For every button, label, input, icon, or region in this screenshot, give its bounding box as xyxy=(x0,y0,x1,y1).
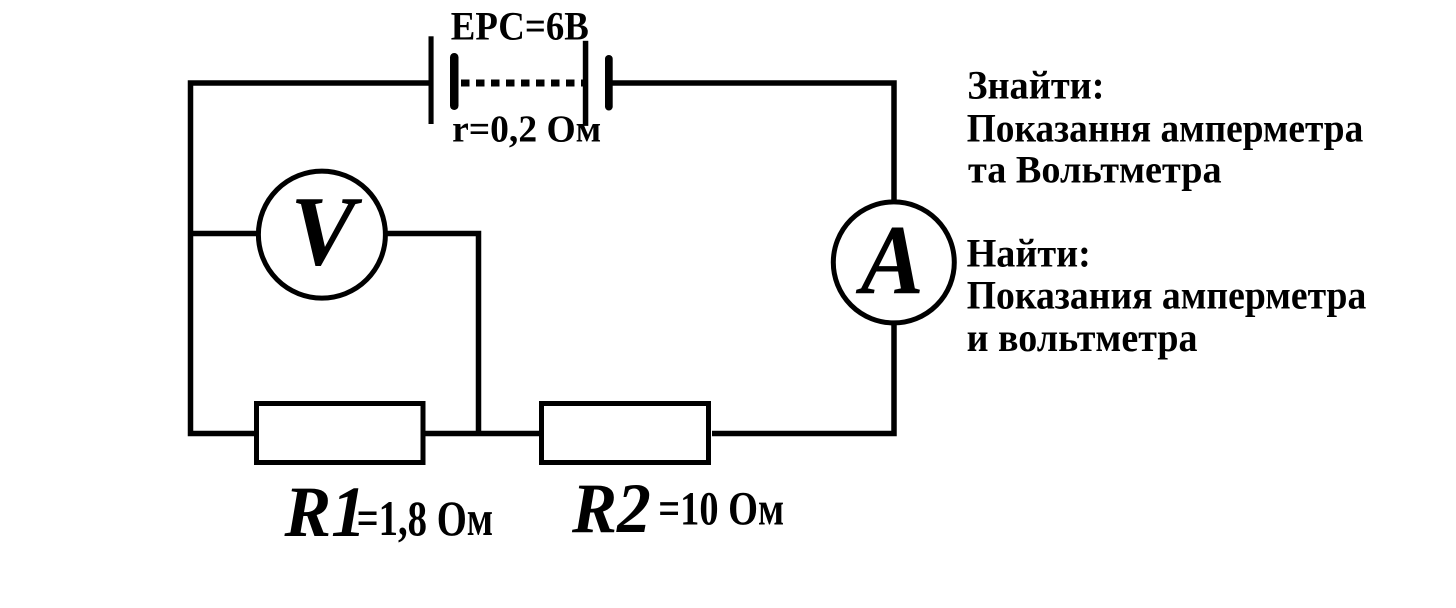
resistor R2 body xyxy=(542,404,709,463)
battery cell 2 long plate xyxy=(583,41,589,126)
svg-text:R2: R2 xyxy=(571,469,651,548)
svg-text:ЕРС=6В: ЕРС=6В xyxy=(451,4,589,49)
svg-text:A: A xyxy=(855,206,924,315)
voltmeter V circle xyxy=(258,171,385,298)
wire: R1 to R2 segment xyxy=(424,431,541,437)
svg-text:V: V xyxy=(290,177,362,287)
svg-text:Показания амперметра: Показания амперметра xyxy=(967,274,1367,318)
wire: ammeter to bottom-right corner to R2 xyxy=(712,324,894,434)
svg-text:R1: R1 xyxy=(284,473,367,552)
svg-text:r=0,2 Ом: r=0,2 Ом xyxy=(452,108,601,151)
wire: voltmeter right branch down to bottom junction xyxy=(387,234,479,433)
svg-text:Знайти:: Знайти: xyxy=(967,63,1104,108)
battery dotted link (omitted cells) xyxy=(461,80,583,87)
battery cell 1 short thick plate xyxy=(450,53,459,110)
svg-text:=1,8 Ом: =1,8 Ом xyxy=(357,491,494,545)
wire: left vertical to voltmeter xyxy=(188,231,258,237)
wire: top-left segment, left vertical, bottom-left segment xyxy=(191,83,432,434)
ammeter A circle xyxy=(833,202,954,323)
svg-text:та Вольтметра: та Вольтметра xyxy=(968,148,1222,192)
svg-text:=10 Ом: =10 Ом xyxy=(658,483,784,536)
svg-text:и вольтметра: и вольтметра xyxy=(967,316,1198,360)
battery cell 1 long plate xyxy=(429,36,434,124)
svg-text:Показання амперметра: Показання амперметра xyxy=(967,107,1364,150)
wire: battery to top-right corner, right vertical down to ammeter xyxy=(611,83,894,200)
resistor R1 body xyxy=(257,404,424,463)
battery cell 2 short thick plate xyxy=(605,55,613,111)
svg-text:Найти:: Найти: xyxy=(967,232,1091,276)
